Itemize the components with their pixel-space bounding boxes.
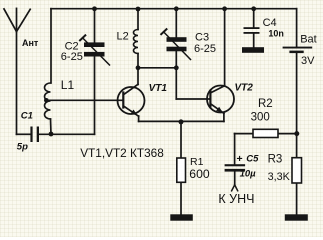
svg-text:C1: C1 (21, 111, 33, 122)
svg-text:3,3K: 3,3K (268, 171, 291, 183)
svg-text:300: 300 (251, 112, 270, 124)
svg-text:R2: R2 (258, 98, 273, 110)
svg-text:600: 600 (189, 167, 210, 181)
svg-text:5p: 5p (17, 142, 28, 153)
svg-text:6-25: 6-25 (61, 51, 83, 63)
svg-text:3V: 3V (301, 55, 315, 67)
svg-text:C5: C5 (246, 154, 259, 165)
svg-text:VT1,VT2 КТ368: VT1,VT2 КТ368 (80, 146, 164, 160)
svg-text:VT1: VT1 (149, 83, 168, 94)
svg-text:+: + (237, 153, 243, 165)
svg-text:L2: L2 (117, 31, 129, 43)
svg-text:10µ: 10µ (240, 168, 257, 179)
svg-text:VT2: VT2 (235, 83, 254, 94)
svg-text:L1: L1 (61, 78, 75, 92)
svg-text:R3: R3 (268, 153, 283, 165)
svg-text:6-25: 6-25 (194, 43, 216, 55)
svg-text:10n: 10n (268, 28, 284, 38)
svg-text:C3: C3 (195, 32, 209, 44)
svg-text:Ант: Ант (22, 38, 39, 48)
svg-text:C4: C4 (263, 17, 277, 29)
svg-text:К УНЧ: К УНЧ (218, 192, 254, 206)
svg-text:Bat: Bat (300, 34, 317, 46)
